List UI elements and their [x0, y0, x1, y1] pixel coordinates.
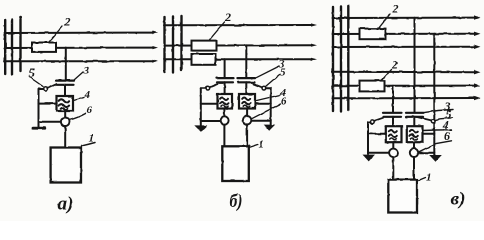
grounded rail right b	[270, 88, 272, 124]
wire rail to box left b	[201, 103, 218, 105]
leader 5 b	[266, 75, 280, 87]
converter box 4 left b	[218, 94, 233, 109]
wire feeder L1 a	[5, 32, 154, 34]
arrow L6 v	[474, 96, 481, 100]
arrow L3 a	[153, 60, 159, 63]
arrow L3 v	[474, 45, 481, 49]
busbar b phase 3	[180, 16, 182, 70]
arrow L4 v	[474, 70, 481, 74]
arrow L2 v	[474, 32, 481, 36]
capacitor 3 bars left v	[383, 112, 402, 114]
wire branch right v	[414, 18, 416, 113]
busbar v phase 1	[332, 7, 334, 111]
svg-text:а): а)	[58, 194, 74, 215]
wire cap to box right v	[413, 117, 415, 126]
wire cap to box left b	[224, 82, 226, 94]
capacitor 3 bars right v	[406, 112, 424, 114]
wire feeder L3 b	[164, 58, 312, 60]
svg-text:1: 1	[259, 139, 265, 151]
reactor 2 lower (diagram v)	[360, 81, 385, 92]
reactor 2 (diagram a)	[32, 43, 56, 52]
wire hinge to rail left b	[201, 87, 206, 89]
leader 1 b	[249, 145, 258, 148]
wire tap right branch b	[245, 45, 247, 77]
leader 3 v	[424, 110, 453, 113]
svg-text:в): в)	[451, 189, 466, 210]
wire tap left branch b	[224, 59, 226, 77]
busbar v phase 2	[340, 7, 342, 112]
wire cap to box left v	[392, 117, 394, 126]
switch hinge circle right v	[431, 119, 435, 123]
machine 1 (diagram b)	[222, 146, 249, 181]
leader 6 v	[420, 141, 452, 152]
svg-text:1: 1	[426, 172, 432, 184]
switch 5 blade left v	[374, 118, 383, 121]
svg-text:2: 2	[392, 2, 399, 16]
wire circle to machine right b	[246, 124, 248, 146]
wire box to circle left v	[392, 142, 394, 148]
arrow L2 b	[311, 44, 317, 47]
leader 4 v	[423, 129, 452, 132]
svg-text:6: 6	[87, 105, 93, 117]
wire rail to box a	[39, 103, 57, 105]
machine circle 6 right v	[410, 149, 418, 157]
ground arrow left b	[194, 125, 207, 131]
wire feeder L3 a	[5, 60, 154, 62]
svg-text:5: 5	[280, 67, 286, 79]
switch hinge circle left v	[370, 120, 374, 124]
wire feeder L2 b	[164, 44, 312, 46]
leader 2 a	[49, 26, 63, 42]
arrow L1 b	[311, 23, 317, 26]
wire rail to box left v	[368, 133, 386, 135]
switch hinge circle right b	[262, 86, 266, 90]
machine circle 6 a	[61, 118, 70, 127]
wire feeder L6 v	[333, 97, 476, 99]
wire box to circle a	[64, 111, 66, 118]
ground bar a	[33, 127, 45, 130]
switch 5 blade right b	[254, 84, 263, 87]
wire rail to circle right b	[252, 120, 271, 122]
leader 5 a	[30, 78, 43, 87]
capacitor 3 bars left b	[217, 77, 234, 79]
wire hinge to rail left v	[368, 121, 370, 123]
arrow L3 b	[311, 58, 317, 61]
leader 4 a	[74, 98, 85, 101]
machine 1 (diagram v)	[388, 180, 417, 213]
wire rail to box right b	[255, 103, 271, 105]
wire box to circle right b	[246, 109, 248, 117]
switch 5 blade left b	[210, 84, 218, 87]
busbar b phase 1	[163, 17, 165, 72]
leader 2 v upper	[379, 14, 391, 28]
wire rail to circle left v	[368, 152, 389, 154]
grounded rail left v	[367, 122, 369, 154]
ground arrow right b	[263, 125, 275, 131]
converter box 4 right v	[407, 126, 423, 142]
arrow L1 a	[153, 31, 159, 34]
wire feeder L2 v	[333, 33, 476, 35]
switch rail right v (from L2)	[433, 34, 435, 155]
machine circle 6 left v	[389, 149, 397, 157]
leader 4 b	[257, 95, 281, 101]
leader 5 v	[435, 118, 453, 120]
converter box 4 left v	[386, 126, 402, 142]
wire hinge to rail right b	[266, 87, 271, 89]
wire box to circle left b	[223, 109, 225, 117]
switch 5 hinge circle a	[44, 87, 48, 91]
leader 3 a	[74, 72, 83, 80]
reactor 2 upper (diagram b)	[192, 41, 217, 51]
leader 1 v	[417, 178, 426, 182]
capacitor 3 bars right b	[238, 77, 256, 79]
wire circle to machine a	[64, 126, 66, 147]
reactor 2 upper (diagram v)	[360, 29, 386, 40]
wire cap to box right b	[245, 82, 247, 94]
machine circle 6 right b	[243, 116, 251, 124]
leader 6 a	[70, 114, 86, 120]
svg-text:б): б)	[230, 191, 243, 212]
leader 1 a	[81, 143, 95, 148]
reactor 2 lower (diagram b)	[192, 54, 216, 65]
wire rail to machine circle a	[39, 121, 62, 123]
wire feeder L1 b	[164, 24, 312, 26]
wire feeder L3 v	[333, 46, 476, 48]
wire box to circle right v	[413, 142, 415, 148]
busbar a phase 3	[19, 19, 21, 71]
leader 6 b	[252, 104, 281, 119]
arrow L2 a	[153, 46, 159, 49]
ground arrow right v	[429, 155, 442, 162]
svg-text:6: 6	[281, 96, 287, 108]
svg-text:3: 3	[83, 65, 90, 77]
wire circle to machine left b	[223, 125, 225, 147]
wire cap to box a	[64, 85, 66, 96]
grounded rail left b	[200, 88, 202, 125]
svg-text:4: 4	[84, 89, 91, 101]
capacitor 3 bars a	[56, 79, 74, 81]
switch 5 blade right v	[416, 117, 432, 121]
busbar v phase 3	[347, 6, 349, 110]
wire rail to box right v	[423, 133, 435, 135]
leader 3 b	[256, 67, 279, 78]
busbar a phase 2	[11, 20, 13, 75]
leader 2 v lower	[382, 70, 392, 81]
wire feeder L1 v	[333, 17, 476, 19]
machine 1 (diagram a)	[51, 148, 81, 183]
converter box 4 right b	[239, 94, 255, 109]
junction dot a	[19, 16, 22, 19]
arrow L1 v	[474, 15, 481, 19]
wire rail to circle left b	[201, 120, 220, 122]
wire circle to machine left v	[392, 157, 394, 180]
busbar a phase 1	[4, 20, 6, 74]
svg-text:2: 2	[64, 15, 71, 29]
wire tap down a	[65, 48, 67, 80]
converter box 4 a	[57, 96, 74, 111]
grounded rail a	[38, 89, 40, 128]
wire feeder L5 v	[333, 85, 476, 87]
busbar b phase 2	[172, 17, 174, 73]
wire hinge to rail a	[39, 88, 44, 90]
ground arrow left v	[363, 155, 376, 162]
wire feeder L2 a	[5, 47, 154, 49]
wire circle to machine right v	[413, 157, 415, 180]
switch hinge circle left b	[206, 86, 210, 90]
wire rail to circle right v	[418, 152, 434, 154]
arrow L5 v	[474, 83, 481, 87]
leader 2 b	[210, 22, 225, 40]
wire branch left v	[392, 86, 394, 113]
switch 5 blade a	[47, 84, 56, 88]
wire feeder L4 v	[333, 71, 476, 73]
machine circle 6 left b	[220, 116, 228, 124]
